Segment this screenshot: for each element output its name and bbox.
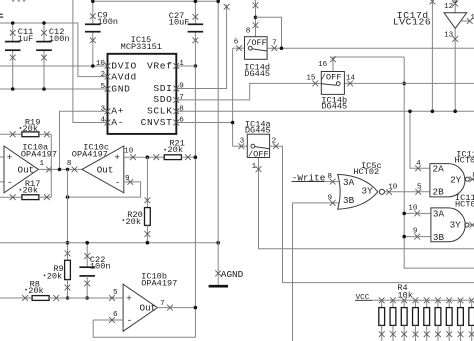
wire R4 element 5 bottom lead [426,325,428,341]
node NAND2 port names [433,208,461,242]
wire to R19 left [0,133,22,135]
svg-text:OPA4197: OPA4197 [72,149,108,159]
node junction top net-AGND riser [216,0,220,3]
node R4 element 4 bottom cross [413,331,419,337]
node junction top net-C27 [194,0,198,3]
wire R9 riser from IC10c output [67,169,69,260]
logic-gate IC5c HCT02 NOR body [338,174,385,209]
wire VRef riser down to IC10b output [194,66,196,308]
wire C27 top lead [194,1,196,24]
node C9 pin 1 cross [90,13,96,19]
svg-text:7: 7 [179,94,184,102]
svg-text:6: 6 [179,117,184,125]
node R9 labels [44,264,64,281]
node R4 element 3 bottom cross [401,331,407,337]
node IC15 right pin cross y=66 [173,63,179,69]
svg-text:3B: 3B [343,195,355,206]
node C22 labels [90,255,111,272]
node junction GND-C12 [42,87,46,91]
node C12 label [49,27,70,44]
svg-text:100n: 100n [97,17,118,27]
svg-text:GND: GND [111,83,130,94]
svg-text:HCT00: HCT00 [455,199,474,209]
node C9 pin 2 cross [90,37,96,43]
wire R4 element 6 top lead [437,300,439,307]
wire R4 element 7 top lead [448,300,450,307]
node IC14a pin numbers [240,137,277,171]
node junction feedback-R9 riser [66,195,70,199]
wire to gate 3A input [404,212,431,214]
svg-text:A-: A- [111,117,124,128]
wire long AGND branch line [0,242,218,244]
node IC15 right pin cross y=99.9 [173,97,179,103]
wire CNVST net from IC15 pin 6 [176,122,232,124]
switch IC14a DG445 body [247,134,269,159]
capacitor C9 [85,24,101,31]
op-amp IC15 MCP33151 ADC body [108,54,177,134]
wire C9 bottom lead [92,32,94,66]
svg-text:-: - [115,177,121,188]
node junction GND-C11 [11,87,15,91]
node IC5c port names [343,177,373,206]
wire net riser from top edge to SCLK [431,0,433,111]
svg-text:4: 4 [100,117,105,125]
svg-text:+: + [7,152,13,163]
node C11 label [18,27,33,44]
node gate 2B pin 5 cross [415,189,421,195]
svg-text:DG445: DG445 [321,102,347,112]
node IC14d pin 7 cross [271,45,277,51]
node IC14b pin numbers [306,61,355,82]
wire to gate 3B input [404,236,431,238]
node IC10c pin 8 cross [72,167,78,173]
svg-text:10: 10 [408,205,418,213]
wire SCLK branch to gate 2A input [410,111,430,168]
node junction A+ riser [58,168,62,172]
node junction R9 riser-mid line [66,241,70,245]
resistor R19 [22,132,39,137]
node junction DVIO-C9 [91,64,95,68]
node IC15 left pin numbers [96,60,106,125]
wire IC10b output [157,307,195,309]
svg-text:1: 1 [252,163,257,171]
node junction riser-3A [402,212,406,216]
node IC17d labels [393,10,431,27]
wire IC14b pin 14 net to right edge [344,82,474,84]
svg-text:5: 5 [113,289,118,297]
node junction riser-SCLK [431,110,435,114]
svg-text:1: 1 [39,160,44,168]
wire to R17 left [0,196,22,198]
node IC17d pin 11 cross [467,18,473,24]
svg-text:14: 14 [346,75,356,83]
node R19 pin 1 cross [10,131,16,137]
svg-text:8: 8 [67,160,72,168]
node IC10a pin number [39,160,44,168]
node R4 element 4 top cross [413,297,419,303]
svg-text:1: 1 [179,60,184,68]
node IC10a pin 1 cross [46,167,52,173]
svg-text:+: + [114,152,120,163]
node IC5c pin 9 cross [330,200,336,206]
node R19 pin 2 cross [44,131,50,137]
wire R4 element 3 top lead [403,300,405,307]
resistor R4 element 4 [413,308,419,326]
node junction C22-mid line [85,241,89,245]
node IC15 right pin cross y=111.3 [173,108,179,114]
svg-text:15: 15 [306,75,316,83]
wire IC17d pin 12 input from top edge [454,0,456,13]
op-amp IC10b OPA4197 body [123,284,157,331]
wire VCC bus for R4 network [372,299,472,301]
svg-text:20k: 20k [126,217,141,227]
node R20 pin 1 cross [145,197,151,203]
capacitor C22 [79,267,95,276]
wire DVIO net to IC15 pin 10 [0,65,108,67]
wire R4 element 9 bottom lead [471,325,473,341]
wire IC17d pin 13 output down to SCLK [454,28,456,111]
node IC14a pin 3 cross [239,143,245,149]
wire IC10c pin 9 feedback loop [68,182,141,197]
svg-text:+: + [126,293,132,304]
ground AGND symbol [209,269,244,286]
wire SCLK net from IC15 pin 8 to right edge [176,110,474,112]
node R4 element 2 top cross [390,297,396,303]
node junction output-VRef riser [194,306,198,310]
node R4 element 7 top cross [446,297,452,303]
svg-text:20k: 20k [47,272,62,282]
svg-text:Out: Out [18,164,35,175]
resistor R21 [164,155,181,160]
node SDI cross near top edge [224,4,230,10]
wire IC10b feedback loop [93,308,195,338]
node IC14b pin 16 cross [330,56,336,62]
node R4 element 5 bottom cross [424,331,430,337]
svg-text:5: 5 [100,83,105,91]
svg-text:-: - [127,315,133,326]
logic-gate IC11c NAND 2A/2B body [430,164,470,197]
node junction pin 7 net [280,46,284,50]
svg-text:VCC: VCC [356,294,370,302]
wire 3Y output stub [469,224,474,226]
node IC14d pin 6 cross [236,45,242,51]
svg-text:AVdd: AVdd [111,72,137,83]
wire R4 element 3 bottom lead [403,325,405,341]
svg-text:20k: 20k [23,124,38,134]
wire R19-R17 feedback riser [50,134,52,197]
node junction R21-VRef [194,155,198,159]
node NAND1 pin numbers [416,160,474,192]
resistor R4 element 8 [458,308,464,326]
node IC15 left pin cross y=76.6 [105,74,111,80]
resistor R4 element 7 [446,308,452,326]
node junction C22-input line [85,296,89,300]
node junction mid line-AGND riser [216,241,220,245]
wire branch to IC14d pin 7 net [256,17,282,48]
node gate 2A pin 4 cross [415,165,421,171]
wire 2Y output stub [469,178,474,180]
wire C11 bottom lead [12,50,14,89]
svg-text:SCLK: SCLK [147,106,173,117]
node IC5c pin numbers [327,173,397,202]
wire A+ net from IC15 pin 3 down to IC10a output [60,111,108,169]
node junction pin13-SCLK [453,110,457,114]
node IC14d pin 8 cross [253,22,259,28]
svg-text:20k: 20k [168,145,183,155]
node R4 element 1 bottom cross [379,331,385,337]
wire to IC14a pin 3 [233,145,248,147]
wire IC10a output to IC10c [39,168,83,170]
node IC14d labels [244,62,270,79]
node partial net label fragment at left edge [0,14,3,18]
svg-text:OPA4197: OPA4197 [141,279,177,289]
node junction pin8 riser branch [254,15,258,19]
resistor R17 [22,195,39,200]
switch IC14b DG445 body [321,72,345,95]
wire -Write to IC5c pin 8 [324,181,340,183]
wire C22 bottom lead [86,276,88,298]
node IC14a pin 2 cross [273,143,279,149]
node IC10b pin 6 cross [109,317,115,323]
svg-text:100n: 100n [90,262,111,272]
resistor R4 element 6 [435,308,441,326]
svg-text:3A: 3A [433,208,445,219]
wire R4 element 7 bottom lead [448,325,450,341]
wire C9 top lead [92,1,94,24]
wire IC17d pin 11 enable stub [461,20,470,22]
svg-text:16: 16 [318,61,328,69]
wire R8 to IC10b + input [49,297,123,299]
capacitor C27 [188,24,204,31]
node junction AVdd-C11 [11,21,15,25]
wire CNVST riser [232,48,234,146]
node IC10b pin 7 cross [167,305,173,311]
node IC17d pin numbers [444,3,474,39]
wire R9 bottom lead [67,280,69,298]
node C9 label [97,10,118,27]
svg-text:HCT02: HCT02 [353,167,379,177]
node IC15 right pin names [141,60,173,128]
node R4 element 1 top cross [379,297,385,303]
wire SDI net from IC15 pin 9 up to top edge [176,5,226,89]
wire C22 top lead [86,243,88,268]
svg-text:10: 10 [124,148,134,156]
wire to IC14d pin 6 [233,47,245,49]
svg-text:LVC126: LVC126 [393,16,431,27]
node R4 element 2 bottom cross [390,331,396,337]
svg-text:/OFF: /OFF [321,73,342,83]
wire to R8 left [0,297,32,299]
node R19 labels [20,117,41,134]
node junction R9 riser [66,168,70,172]
svg-text:2B: 2B [433,186,445,197]
wire IC14a pin 1 net down to right edge [259,158,474,249]
node IC10c pin 9 cross [127,179,133,185]
node IC10b pin numbers [113,289,165,319]
resistor R4 element 9 [469,308,474,326]
node 3Y output cross [469,222,474,228]
svg-text:100n: 100n [49,34,70,44]
node cross on pin 8 riser top [253,2,259,8]
node gate 3A pin 10 cross [414,211,420,217]
wire SDO net from IC15 pin 7 to IC14b pin 15 [176,83,321,100]
node R4 labels [397,283,412,300]
wire R21 right to VRef [181,156,195,158]
svg-text:20k: 20k [28,286,43,296]
wire IC10c pin 10 input row [124,156,164,158]
svg-text:VRef: VRef [147,60,173,71]
wire IC10b - input [93,319,123,321]
svg-text:2: 2 [100,71,105,79]
node C22 pin 2 cross [84,281,90,287]
node C12 pin 2 cross [41,55,47,61]
svg-text:DG445: DG445 [244,69,270,79]
node R4 element 3 top cross [401,297,407,303]
node R21 pin 2 cross [185,154,191,160]
wire R4 element 4 top lead [414,300,416,307]
node R21 pin 1 cross [153,154,159,160]
svg-text:SDO: SDO [153,94,172,105]
node IC15 left pin cross y=111.3 [105,108,111,114]
wire control net riser down to right edge [404,57,474,268]
node IC10b pin 5 cross [109,295,115,301]
wire R4 element 1 bottom lead [381,325,383,341]
resistor R4 element 5 [424,308,430,326]
svg-text:3: 3 [100,105,105,113]
svg-text:12: 12 [444,3,454,11]
wire IC14d pin 8 control riser [255,0,257,37]
svg-text:3Y: 3Y [362,185,374,196]
node 2Y output cross [470,176,474,182]
svg-text:AGND: AGND [221,269,244,280]
node R17 labels [20,179,41,196]
wire IC14a pin 2 net down to right edge [270,146,474,282]
node IC15 right pin cross y=122.5 [173,120,179,126]
svg-text:7: 7 [160,300,165,308]
wire IC5c output to gate 2B input [385,191,430,193]
svg-text:2Y: 2Y [450,174,462,185]
node IC15 left pin names [111,60,137,128]
svg-text:8: 8 [179,105,184,113]
wire top supply net [93,0,218,2]
node NAND2 pin numbers [408,205,418,236]
node IC10b labels [141,271,177,288]
op-amp IC17d LVC126 buffer body [444,13,467,29]
svg-text:-: - [7,177,13,188]
node IC15 right pin cross y=88.5 [173,86,179,92]
node cross at top edge riser [430,0,436,4]
node R4 element 6 top cross [435,297,441,303]
node IC5c pin 8 cross [330,179,336,185]
capacitor C12 [36,42,52,51]
wire R4 element 9 top lead [471,300,473,307]
wire R4 element 2 top lead [392,300,394,307]
node R8 pin 1 cross [22,295,28,301]
node IC14b pin 15 cross [312,81,318,87]
node NAND2 labels [455,193,474,209]
wire A- net riser to IC15 pin 4 [73,0,108,123]
node R4 element 9 bottom cross [469,331,474,337]
node junction CNVST riser [231,121,235,125]
svg-text:9: 9 [327,195,332,203]
node R8 pin 2 cross [53,295,59,301]
wire R4 element 5 top lead [426,300,428,307]
node IC14a pin 1 cross [256,166,262,172]
node R17 pin 1 cross [10,194,16,200]
node R9 pin 2 cross [65,285,71,291]
node R17 pin 2 cross [44,194,50,200]
wire R4 element 4 bottom lead [414,325,416,341]
node cut-off text fragments at top edge [12,0,25,2]
wire R4 element 8 bottom lead [459,325,461,341]
node IC17d pin 12 cross [452,1,458,7]
node C27 pin 1 cross [193,14,199,20]
resistor R4 element 3 [401,308,407,326]
node -Write net label [292,172,326,183]
svg-text:DVIO: DVIO [111,60,137,71]
svg-text:3B: 3B [433,232,445,243]
svg-text:13: 13 [444,32,454,40]
svg-text:CNVST: CNVST [141,117,173,128]
op-amp IC10c OPA4197 body [82,146,124,193]
wire C12 bottom lead [43,50,45,89]
wire C11 top lead [12,23,14,42]
node junction VRef-C27 [194,64,198,68]
node C27 pin 2 cross [193,37,199,43]
wire R19 right [39,133,51,135]
node circle fragment at top edge [453,0,457,2]
node IC10c pin 10 cross [130,154,136,160]
wire VRef from IC15 pin 1 [176,65,195,67]
node junction AVdd-C12 [42,21,46,25]
wire C27 bottom lead [194,32,196,66]
node R4 element 6 bottom cross [435,331,441,337]
svg-text:3Y: 3Y [450,220,462,231]
node VCC label [355,294,372,302]
node IC14d pin numbers [234,27,277,47]
resistor R4 element 2 [390,308,396,326]
node junction R20 riser [146,155,150,159]
resistor R20 [145,208,151,226]
wire IC5c pin 9 input [293,202,340,204]
node IC5c labels [353,161,381,177]
node IC14a labels [245,119,271,135]
svg-text:8: 8 [246,27,251,35]
svg-text:10uF: 10uF [169,18,190,28]
resistor R9 [65,260,71,279]
node R8 labels [25,279,43,296]
capacitor C11 [5,42,21,51]
node IC15 left pin cross y=122.5 [105,120,111,126]
node C11 pin 1 cross [10,30,16,36]
node NAND1 labels [455,150,474,166]
svg-text:2A: 2A [433,163,445,174]
node IC15 name label [121,35,162,52]
node IC10c labels [72,143,109,160]
node R21 labels [164,139,184,155]
node R4 element 8 top cross [458,297,464,303]
svg-text:A+: A+ [111,106,124,117]
node junction R9-input line [66,296,70,300]
node gate 3B pin 9 cross [414,234,420,240]
node AGND cross [215,270,221,276]
wire IC10a - input stub [0,181,4,183]
node IC17d pin 13 cross [452,36,458,42]
resistor R4 element 1 [379,308,385,326]
node IC10a labels [21,143,57,160]
wire pin 9 net riser to bottom edge [292,203,294,341]
wire R4 element 1 top lead [381,300,383,307]
